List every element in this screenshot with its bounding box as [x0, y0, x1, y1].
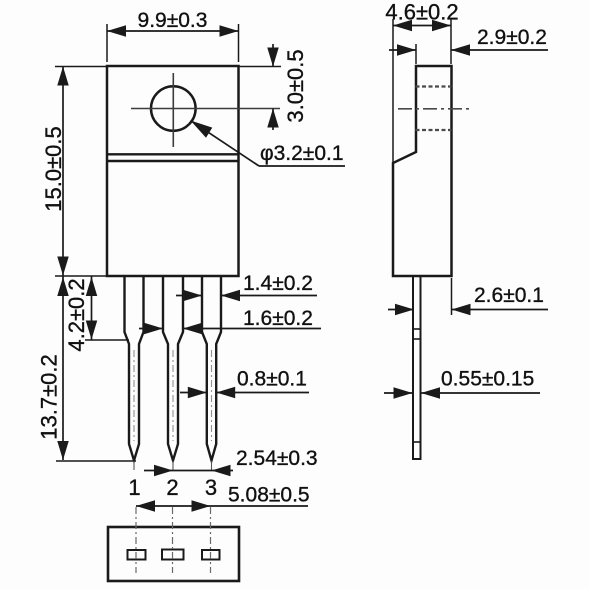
lead tip extension ticks — [134, 461, 212, 470]
dimension 9.9±0.3 body width — [107, 9, 239, 62]
svg-text:9.9±0.3: 9.9±0.3 — [138, 9, 208, 32]
svg-text:4.2±0.2: 4.2±0.2 — [64, 278, 89, 351]
bottom view pin 3 section — [202, 550, 220, 560]
dimension 1.6±0.2 center lead width — [139, 307, 321, 334]
lead 2 centerline — [172, 350, 174, 441]
lead 3 centerline — [211, 350, 213, 441]
dimension 13.7±0.2 lead length — [37, 276, 137, 461]
bottom view outline — [108, 527, 239, 581]
svg-text:1: 1 — [128, 475, 140, 500]
lead 1 centerline — [133, 350, 135, 441]
bottom view pin 2 centerline — [172, 507, 174, 573]
svg-text:15.0±0.5: 15.0±0.5 — [41, 126, 66, 211]
svg-text:4.6±0.2: 4.6±0.2 — [385, 0, 458, 25]
side view lead — [412, 276, 422, 459]
bottom view pin 3 centerline — [210, 507, 212, 573]
front view tab step line upper — [107, 153, 239, 155]
pin number 2 — [166, 475, 178, 500]
mounting hole — [151, 86, 196, 131]
svg-text:3.0±0.5: 3.0±0.5 — [283, 49, 308, 122]
dimension 15.0±0.5 body height — [41, 66, 106, 276]
lead 3 front view — [202, 276, 221, 461]
hole crosshair vertical — [172, 73, 174, 147]
dimension 2.6±0.1 lead offset — [388, 278, 548, 315]
dimension 3.0±0.5 hole position — [239, 44, 309, 130]
svg-text:1.4±0.2: 1.4±0.2 — [243, 272, 313, 295]
dimension 1.4±0.2 lead width — [176, 272, 317, 301]
dimension 5.08±0.5 outer lead span — [136, 484, 310, 512]
leader label φ3.2±0.1 hole diameter — [191, 121, 346, 167]
bottom view pin 2 section — [162, 550, 184, 560]
side view hole hidden line lower — [416, 129, 452, 131]
svg-text:0.55±0.15: 0.55±0.15 — [441, 368, 534, 391]
svg-text:2.6±0.1: 2.6±0.1 — [474, 284, 544, 307]
dimension 4.2±0.2 lead shoulder length — [64, 276, 129, 352]
svg-text:0.8±0.1: 0.8±0.1 — [237, 368, 307, 391]
svg-text:2: 2 — [166, 475, 178, 500]
svg-text:1.6±0.2: 1.6±0.2 — [243, 307, 313, 330]
svg-text:13.7±0.2: 13.7±0.2 — [37, 354, 62, 439]
svg-text:2.54±0.3: 2.54±0.3 — [236, 447, 318, 470]
lead 1 front view — [125, 276, 144, 461]
lead 2 front view — [163, 276, 183, 461]
hole crosshair horizontal / extension line for 3.0 dim — [131, 108, 280, 110]
side view hole hidden line upper — [416, 85, 452, 87]
svg-text:2.9±0.2: 2.9±0.2 — [477, 26, 547, 49]
dimension 4.6±0.2 package thickness — [385, 0, 458, 163]
svg-text:φ3.2±0.1: φ3.2±0.1 — [260, 142, 344, 165]
side view body outline — [393, 66, 452, 276]
front view package body — [107, 66, 239, 276]
svg-text:3: 3 — [205, 475, 217, 500]
dimension 0.8±0.1 lead tip width — [180, 368, 309, 399]
front view tab step line lower — [107, 160, 239, 162]
bottom view pin 1 section — [128, 550, 146, 560]
dimension 0.55±0.15 lead thickness — [384, 368, 540, 399]
pin number 1 — [128, 475, 140, 500]
bottom view pin 1 centerline — [135, 507, 137, 573]
pin number 3 — [205, 475, 217, 500]
side view hole centerline — [398, 108, 469, 110]
dimension 2.9±0.2 tab thickness — [389, 26, 548, 64]
dimension 2.54±0.3 lead pitch — [144, 447, 318, 476]
svg-text:5.08±0.5: 5.08±0.5 — [228, 484, 310, 507]
